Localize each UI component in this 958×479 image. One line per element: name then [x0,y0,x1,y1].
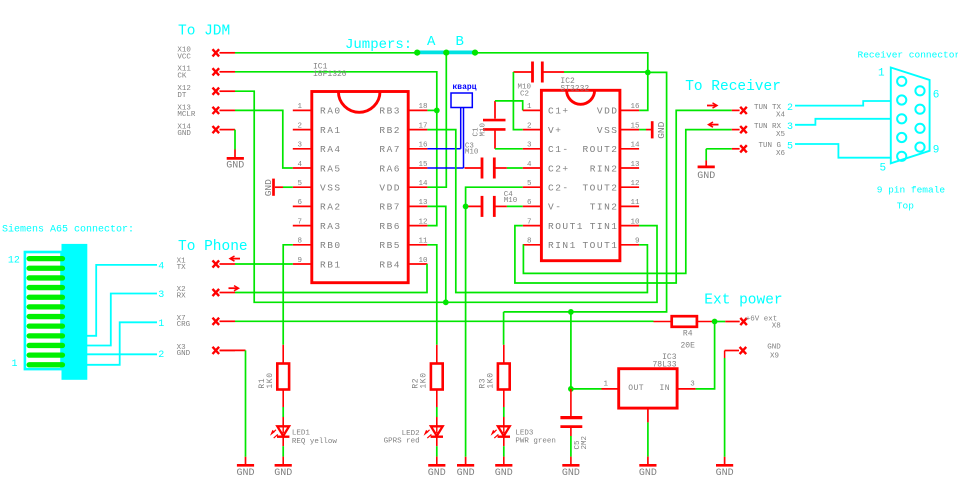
svg-text:RB3: RB3 [379,106,401,117]
svg-text:C2-: C2- [548,183,570,194]
svg-text:To Receiver: To Receiver [685,79,781,95]
svg-text:GND: GND [177,130,191,138]
wire RB0 pin8 to R1 [283,245,293,345]
svg-text:78L33: 78L33 [652,361,676,370]
svg-text:TUN G: TUN G [758,142,781,150]
svg-text:RB7: RB7 [379,202,401,213]
svg-text:2: 2 [787,103,793,114]
svg-text:1: 1 [527,103,532,111]
svg-text:RA4: RA4 [320,144,342,155]
svg-text:1: 1 [297,103,302,111]
svg-text:Jumpers:: Jumpers: [345,37,412,53]
wire DT branch up to RB7 pin 13 [427,206,445,302]
connector Siemens A65 pins [27,256,66,261]
svg-text:5: 5 [880,163,887,175]
svg-text:18: 18 [418,103,427,111]
svg-text:RA1: RA1 [320,125,342,136]
svg-text:V-: V- [548,202,562,213]
IC2 pin 13 RIN2 [620,167,639,169]
capacitor C3 M10 [481,158,484,179]
svg-text:RA3: RA3 [320,221,342,232]
IC1 pin 15 RA6 [408,167,427,169]
svg-text:9: 9 [635,238,640,246]
svg-text:REQ yellow: REQ yellow [292,438,338,446]
svg-text:VDD: VDD [597,106,619,117]
svg-text:M10: M10 [465,149,479,157]
IC1 pin 13 RB7 [408,205,427,207]
wire RA7 pin16 to crystal (blue) [427,148,460,150]
svg-text:C2: C2 [520,91,529,99]
IC2 pin 14 ROUT2 [620,148,639,150]
wire ROUT1 pin7 to TUN TX [515,110,732,283]
LED LED2 GPRS red [436,417,438,426]
wire RB2 pin17 to TOUT1 [427,130,647,293]
svg-text:R4: R4 [683,330,693,339]
wire DT net X12 to RB7/TIN1 [235,91,657,302]
terminal X8 +6V ext [715,321,726,323]
terminal X4 TUN TX [740,107,747,114]
svg-text:1: 1 [604,380,609,388]
svg-text:C52M2: C52M2 [574,436,589,450]
IC1 pin 5 VSS [293,186,312,188]
svg-text:X9: X9 [770,353,779,361]
svg-text:GND: GND [226,160,244,171]
svg-text:5: 5 [297,180,302,188]
terminal X9 GND [740,347,747,354]
arrow at X5 (left) [709,124,719,126]
wire phone cable 3 [86,294,157,346]
IC1 pin 16 RA7 [408,148,427,150]
svg-text:X4: X4 [776,112,786,120]
terminal X5 TUN RX [740,126,747,133]
svg-text:TIN1: TIN1 [590,221,619,232]
capacitor C5 2M2 [570,389,572,416]
svg-text:PWR green: PWR green [515,438,556,446]
IC1 pin 8 RB0 [293,244,312,246]
svg-text:RB2: RB2 [379,125,401,136]
svg-text:X8: X8 [772,322,781,330]
ground GND under LED3 [495,464,512,467]
capacitor C2 M10 [531,62,534,83]
svg-text:7: 7 [527,218,532,226]
wire C1 top to IC2 C1+ pin 1 [495,101,523,111]
svg-text:GND: GND [562,468,580,479]
IC2 pin 2 V+ [523,129,542,131]
IC3 pin 2 ground [647,408,649,422]
svg-text:1: 1 [158,319,164,330]
svg-text:ROUT1: ROUT1 [548,221,584,232]
svg-text:CK: CK [177,72,187,80]
svg-text:7: 7 [297,218,302,226]
wire C1 bottom to IC2 C1- pin 3 [495,148,523,150]
svg-text:12: 12 [8,256,20,267]
svg-text:14: 14 [418,180,428,188]
ground GND under IC3 [639,464,656,467]
wire X2 RX to RB4 pin 10 [235,264,427,293]
svg-text:LED1: LED1 [292,430,311,438]
svg-text:13: 13 [418,199,428,207]
svg-text:GND: GND [457,468,475,479]
IC3 pin 3 IN [677,388,696,390]
wire 3V3 rail to OUT pin 1 [571,312,602,389]
svg-text:RA5: RA5 [320,163,342,174]
svg-text:To Phone: To Phone [178,239,248,255]
svg-text:RA2: RA2 [320,202,342,213]
svg-text:RA0: RA0 [320,106,342,117]
svg-text:8: 8 [297,238,302,246]
ground GND under LED1 [275,464,292,467]
ground GND under X9 [716,464,733,467]
svg-text:20E: 20E [680,341,695,350]
svg-text:RA6: RA6 [379,163,401,174]
svg-text:DT: DT [177,92,187,100]
svg-text:2: 2 [158,350,164,361]
svg-text:12: 12 [630,180,639,188]
wire 3V3 rail down to R3 [503,312,505,345]
svg-text:RIN1: RIN1 [548,240,577,251]
svg-text:4: 4 [297,161,302,169]
svg-text:GPRS red: GPRS red [384,438,420,446]
svg-text:GND: GND [274,468,292,479]
ground GND under X14 [234,130,236,150]
wire C2 right to VCC junction [564,71,648,73]
IC1 pin 7 RA3 [293,225,312,227]
IC1 pin 10 RB4 [408,263,427,265]
wire R4/X8 node down to IC3 IN pin 3 [696,322,715,389]
wire RB5 pin11 to R2 [427,245,436,345]
svg-text:TIN2: TIN2 [590,202,619,213]
svg-text:2: 2 [297,122,302,130]
svg-text:X5: X5 [776,131,786,139]
svg-text:Receiver connector: Receiver connector [858,50,958,61]
ground GND under LED2 [428,464,445,467]
svg-text:TUN RX: TUN RX [754,123,782,131]
node CK junction at RB3 pin 18 [434,108,440,114]
wire TUN G to ground [706,148,732,150]
svg-text:16: 16 [630,103,640,111]
svg-text:1: 1 [878,68,885,80]
svg-text:C1+: C1+ [548,106,570,117]
svg-text:3: 3 [527,142,532,150]
svg-text:6: 6 [527,199,532,207]
ground GND at IC2 VSS pin 15 [639,129,646,131]
connector Siemens A65 body [62,244,88,380]
IC1 pin 17 RB2 [408,129,427,131]
IC1 pin 2 RA1 [293,129,312,131]
svg-text:To JDM: To JDM [178,24,230,40]
svg-text:R11K0: R11K0 [258,372,275,388]
node VCC junction at IC2 VDD column [645,70,651,76]
svg-text:TOUT2: TOUT2 [582,183,618,194]
svg-text:GND: GND [263,179,274,196]
svg-text:5: 5 [787,141,793,152]
svg-text:IN: IN [660,384,671,393]
svg-text:M10: M10 [504,197,518,205]
svg-text:R31K0: R31K0 [479,372,496,388]
svg-text:V+: V+ [548,125,562,136]
IC2 pin 3 C1- [523,148,542,150]
IC1 pin 11 RB5 [408,244,427,246]
terminal X6 TUN G [740,145,747,152]
svg-text:4: 4 [527,161,532,169]
svg-text:C1-: C1- [548,144,570,155]
svg-text:ROUT2: ROUT2 [582,144,618,155]
arrow at X1 (left) [231,258,241,260]
ground GND at IC1 VSS pin 5 [283,186,293,188]
svg-text:LED3: LED3 [515,430,534,438]
resistor R3 1K0 [503,345,505,364]
IC2 pin 7 ROUT1 [523,225,542,227]
wire DB9 cable pin5 (G) [795,144,892,158]
svg-text:1: 1 [12,359,18,370]
IC2 pin 12 TOUT2 [620,186,639,188]
svg-text:13: 13 [630,161,640,169]
IC2 pin 11 TIN2 [620,205,639,207]
node DT junction [443,299,449,305]
wire X3 to ground [220,349,246,351]
jumper bar A-B [416,51,476,55]
svg-text:RA7: RA7 [379,144,401,155]
svg-text:R21K0: R21K0 [412,372,429,388]
svg-text:GND: GND [236,468,254,479]
IC2 pin 6 V- [523,205,542,207]
node junction C4 left [463,204,469,210]
svg-text:MCLR: MCLR [177,111,196,119]
wire MCLR net X13 to RA5 pin 4 [235,110,293,168]
IC1 pin 12 RB6 [408,225,427,227]
svg-text:11: 11 [630,199,640,207]
wire phone cable 2 [86,353,157,355]
ground GND under C5 [562,464,579,467]
op-amp? no - IC U1 IC1 18F1320 body [312,92,408,283]
connector DB9 9 pin female body [891,68,930,164]
svg-text:X6: X6 [776,150,786,158]
svg-text:Ext power: Ext power [704,292,782,308]
wire X1 TX to RB1 pin 9 [235,263,293,265]
wire phone cable 4 [86,265,157,336]
svg-text:18F1320: 18F1320 [313,70,347,79]
wire VCC branch right of jumper junction down to 3V3 rail [504,72,667,312]
IC1 pin 3 RA4 [293,148,312,150]
svg-text:VSS: VSS [597,125,619,136]
svg-text:C2+: C2+ [548,163,570,174]
svg-text:5: 5 [527,180,532,188]
svg-text:GND: GND [656,121,667,138]
svg-text:A: A [427,34,436,50]
svg-text:GND: GND [639,468,657,479]
IC1 pin 1 RA0 [293,109,312,111]
IC2 pin 8 RIN1 [523,244,542,246]
wire CK net X11 to RB3/RB6 [235,72,437,226]
svg-text:RX: RX [177,292,187,300]
IC1 pin 4 RA5 [293,167,312,169]
capacitor C1 M10 [483,119,506,122]
wire X7 CRG to R4 [235,320,654,322]
IC2 pin 15 VSS [620,129,639,131]
ground GND under C2- rail [465,457,467,464]
wire DB9 cable pin3 (RX) [795,119,891,125]
svg-text:3: 3 [297,142,302,150]
LED LED1 REQ yellow [282,417,284,426]
svg-text:B: B [456,34,464,50]
svg-text:11: 11 [418,238,428,246]
svg-text:GND: GND [716,468,734,479]
resistor R4 20E [654,321,672,323]
node junction OUT/C5 [568,386,574,392]
svg-text:RB5: RB5 [379,240,401,251]
IC IC3 78L33 body [619,369,677,408]
svg-text:15: 15 [630,122,640,130]
svg-text:TX: TX [177,264,187,272]
IC2 pin 16 VDD [620,109,639,111]
wire IC2 C2- pin 5 to C4/GND rail [466,187,523,457]
resistor R1 1K0 [282,345,284,364]
capacitor C4 M10 [481,196,484,217]
svg-text:12: 12 [418,218,427,226]
svg-text:Top: Top [897,200,914,211]
svg-text:OUT: OUT [628,384,644,393]
svg-text:RB4: RB4 [379,259,401,270]
svg-text:GND: GND [495,468,513,479]
IC2 pin 4 C2+ [523,167,542,169]
svg-text:9 pin female: 9 pin female [877,185,946,196]
svg-text:GND: GND [177,350,191,358]
ground GND at TUN G [698,166,715,169]
IC1 pin 9 RB1 [293,263,312,265]
IC IC2 ST3232 body [541,90,620,260]
LED LED3 PWR green [503,417,505,426]
IC2 pin 10 TIN1 [620,225,639,227]
wire VCC rail (X10 to jumper to IC2 VDD) [235,53,648,111]
svg-text:16: 16 [418,142,428,150]
svg-text:CRG: CRG [177,321,191,329]
svg-text:GND: GND [767,343,781,351]
wire RIN1 pin8 to TUN RX [523,130,732,274]
wire DB9 cable pin2 (TX) [795,101,891,106]
wire RB3 pin18 to CK junction [427,109,436,111]
svg-text:3: 3 [690,380,695,388]
svg-text:17: 17 [418,122,427,130]
svg-text:3: 3 [158,290,164,301]
arrow at X2 (right) [229,287,239,289]
svg-text:3: 3 [787,122,793,133]
svg-text:RB0: RB0 [320,240,342,251]
svg-text:4: 4 [158,262,164,273]
svg-text:VSS: VSS [320,183,342,194]
IC1 pin 6 RA2 [293,205,312,207]
wire C4 right to IC2 V- pin 6 [507,205,523,207]
svg-text:VCC: VCC [177,53,191,61]
wire jumper mid to IC1 VDD pin 14 [427,53,446,187]
svg-text:6: 6 [933,90,940,102]
wire phone cable 1 [86,322,157,365]
svg-text:C1M10: C1M10 [472,122,487,136]
svg-text:TUN TX: TUN TX [754,104,782,112]
IC2 pin 5 C2- [523,186,542,188]
arrow at X4 (right) [707,105,717,107]
node junction 3V3 rail top [568,309,574,315]
IC1 pin 18 RB3 [408,109,427,111]
svg-text:кварц: кварц [453,83,477,92]
svg-text:RB1: RB1 [320,259,342,270]
svg-text:8: 8 [527,238,532,246]
svg-text:VDD: VDD [379,183,401,194]
svg-text:GND: GND [697,171,715,182]
svg-text:15: 15 [418,161,428,169]
node junction R4 / X8 / IN [712,319,718,325]
svg-text:ST3232: ST3232 [560,84,589,93]
svg-text:9: 9 [297,257,302,265]
wire C2 left to IC2 V+ pin 2 [513,72,522,130]
svg-text:Siemens A65 connector:: Siemens A65 connector: [2,223,134,235]
svg-text:GND: GND [428,468,446,479]
ground GND under X3 [237,464,254,467]
svg-text:10: 10 [418,257,428,265]
IC2 pin 1 C1+ [523,109,542,111]
IC3 pin 1 OUT [602,388,619,390]
svg-text:RB6: RB6 [379,221,401,232]
svg-text:10: 10 [630,218,640,226]
connector DB9 pin holes [897,77,906,86]
svg-text:6: 6 [297,199,302,207]
svg-text:14: 14 [630,142,640,150]
svg-text:RIN2: RIN2 [590,163,619,174]
IC1 pin 14 VDD [408,186,427,188]
resistor R2 1K0 [436,345,438,364]
crystal Q1 [451,93,472,108]
svg-text:9: 9 [933,145,940,157]
IC2 pin 9 TOUT1 [620,244,639,246]
svg-text:TOUT1: TOUT1 [582,240,618,251]
wire C3 right to IC2 C2+ pin 4 [507,167,523,169]
svg-text:2: 2 [527,122,532,130]
wire RA6 pin15 to crystal (blue) [427,167,463,169]
